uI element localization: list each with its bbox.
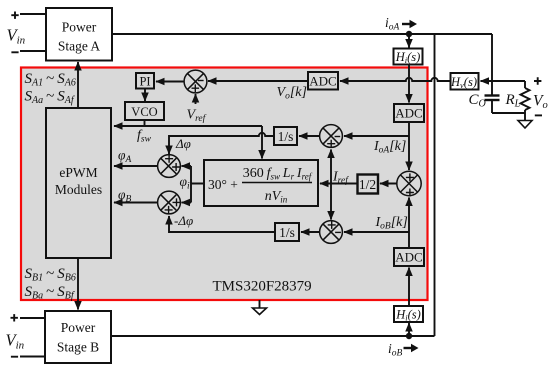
sign plus IoA circle bbox=[327, 140, 335, 148]
arrow phi-i to bottom circle bbox=[182, 202, 192, 204]
block ADC right bbox=[394, 104, 424, 122]
node ioA dot bbox=[406, 31, 412, 37]
wire PI to VCO bbox=[144, 88, 146, 101]
sign plus IoB circle top bbox=[328, 221, 336, 229]
summing junction phiB bbox=[158, 191, 181, 214]
svg-text:ADC: ADC bbox=[309, 74, 336, 89]
ground symbol load bbox=[518, 121, 532, 129]
wire Hi(s) to ADC right bbox=[408, 64, 410, 103]
wire VCO stem bbox=[144, 120, 146, 126]
sign minus IoA circle bbox=[335, 136, 341, 138]
wire big circle to 1/2 box bbox=[380, 183, 397, 185]
wire Power Stage A output top rail bbox=[112, 33, 492, 35]
svg-text:1/s: 1/s bbox=[279, 225, 295, 240]
svg-text:Vin: Vin bbox=[7, 26, 26, 47]
ground stem DSP bbox=[259, 300, 261, 308]
svg-text:ADC: ADC bbox=[395, 106, 422, 121]
wire bottom ADC up to big circle bottom bbox=[408, 198, 410, 249]
arrow phi-i to top circle bbox=[182, 165, 192, 167]
svg-text:Hv(s): Hv(s) bbox=[450, 75, 477, 90]
svg-text:VCO: VCO bbox=[131, 105, 157, 119]
svg-text:Δφ: Δφ bbox=[175, 136, 191, 151]
wire top-left circle to 1/s bbox=[299, 135, 320, 137]
DSP gray box TMS320F28379 (red border) bbox=[21, 68, 428, 301]
svg-text:Stage A: Stage A bbox=[58, 39, 101, 54]
block Hi(s) bottom bbox=[394, 306, 423, 322]
wire load rail to Hv(s) input bbox=[481, 80, 526, 82]
svg-text:RL: RL bbox=[505, 92, 521, 110]
sign plus phiB bottom bbox=[165, 206, 173, 214]
wire bottom-left circle to bottom 1/s bbox=[301, 231, 320, 233]
block 1/s bottom bbox=[275, 223, 299, 241]
wire PI circle output to PI box bbox=[156, 81, 185, 83]
summing junction IoA error bbox=[320, 125, 343, 148]
wire RL top lead bbox=[524, 81, 526, 88]
fraction bar formula bbox=[242, 182, 312, 184]
block ADC top-left bbox=[308, 72, 338, 90]
svg-text:ioB: ioB bbox=[388, 341, 403, 359]
svg-text:Vin: Vin bbox=[6, 331, 25, 352]
wire Vin- to Power Stage B bbox=[20, 356, 45, 358]
wire Power Stage B output bottom rail bbox=[111, 335, 435, 337]
svg-text:ADC: ADC bbox=[395, 250, 422, 265]
wire ADC down to big circle top bbox=[408, 122, 410, 170]
block formula 30deg bbox=[204, 160, 318, 206]
wire RL bottom lead bbox=[524, 110, 526, 113]
block Power Stage A bbox=[46, 8, 112, 61]
wire Vin+ to Power Stage A bbox=[20, 13, 46, 15]
svg-text:Power: Power bbox=[61, 320, 96, 335]
sign plus phiA right bbox=[172, 163, 180, 171]
svg-text:30° +: 30° + bbox=[208, 177, 238, 192]
summing junction IoA+IoB bbox=[397, 171, 421, 195]
svg-text:1/2: 1/2 bbox=[359, 177, 376, 192]
sign minus IoB circle right bbox=[335, 231, 341, 233]
wire Vref arrow bbox=[195, 94, 197, 104]
svg-text:Vo: Vo bbox=[533, 93, 548, 112]
label Vin top minus bbox=[11, 51, 18, 53]
wire Iref line from 1/2 to formula box bbox=[320, 183, 357, 185]
wire phiA circle to ePWM bbox=[114, 165, 158, 167]
wire ADC output to PI summing circle bbox=[208, 80, 308, 82]
label Vin bottom plus bbox=[11, 314, 18, 321]
svg-text:Hi(s): Hi(s) bbox=[395, 50, 421, 65]
sign plus big circle top bbox=[406, 173, 414, 181]
svg-text:TMS320F28379: TMS320F28379 bbox=[213, 279, 312, 295]
svg-text:CO: CO bbox=[469, 92, 486, 110]
wire phiB circle to ePWM bbox=[114, 202, 158, 204]
wire output node down to capacitor top bbox=[491, 34, 493, 96]
wire ePWM up to Power Stage A bbox=[77, 62, 79, 108]
svg-text:Stage B: Stage B bbox=[57, 340, 99, 355]
wire bottom node to Hi(s) bbox=[408, 323, 410, 336]
wire Vin+ to Power Stage B bbox=[20, 317, 45, 319]
label Vo minus bbox=[535, 114, 542, 116]
wire Iref vertical up to top circle bbox=[330, 150, 332, 184]
svg-text:IoB[k]: IoB[k] bbox=[375, 215, 408, 232]
block Hv(s) bbox=[451, 73, 479, 90]
summing junction phiA bbox=[158, 155, 181, 178]
block VCO bbox=[125, 102, 164, 120]
label Vin top plus bbox=[11, 12, 18, 19]
block 1/s top bbox=[274, 127, 297, 145]
wire IoB branch to bottom-left circle bbox=[344, 231, 409, 233]
label Vo plus bbox=[534, 77, 541, 84]
wire -delta-phi from bottom 1/s to phiB circle bbox=[169, 216, 275, 232]
wire ground stem load bbox=[524, 113, 526, 121]
block ADC bottom bbox=[394, 248, 424, 266]
svg-text:Hi(s): Hi(s) bbox=[395, 308, 421, 323]
svg-text:ePWM: ePWM bbox=[59, 165, 97, 180]
svg-text:-Δφ: -Δφ bbox=[174, 213, 193, 228]
sign plus phiB right bbox=[173, 198, 181, 206]
svg-text:Power: Power bbox=[62, 20, 97, 35]
wire Vin- to Power Stage A bbox=[20, 50, 46, 52]
svg-text:1/s: 1/s bbox=[278, 129, 294, 144]
wire Hv(s) output with hops to ADC top-left bbox=[340, 78, 451, 81]
svg-text:IoA[k]: IoA[k] bbox=[373, 139, 406, 156]
sign plus phiA top bbox=[165, 155, 173, 163]
sign minus PI circle bbox=[198, 80, 204, 82]
wire Iref vertical down to bottom circle bbox=[330, 184, 332, 220]
summing junction PI (Vo error) bbox=[184, 70, 207, 93]
sign plus PI circle bbox=[192, 84, 200, 92]
svg-text:ioA: ioA bbox=[385, 15, 400, 33]
wire IoA branch to top-left circle bbox=[344, 135, 409, 137]
wire capacitor bottom lead bbox=[491, 100, 493, 113]
block Power Stage B bbox=[45, 311, 111, 363]
wire ePWM down to Power Stage B bbox=[77, 258, 79, 310]
wire fsw line to ePWM bbox=[114, 125, 262, 127]
wire load bottom rail bbox=[492, 112, 525, 114]
wire 1/s output delta-phi with hop bbox=[169, 133, 274, 154]
block PI bbox=[136, 73, 154, 89]
ground symbol DSP bbox=[253, 308, 267, 315]
svg-text:Vo[k]: Vo[k] bbox=[277, 85, 307, 102]
sign plus big circle bottom bbox=[406, 189, 414, 197]
block 1/2 bbox=[358, 175, 379, 194]
arrow ioB direction bbox=[404, 344, 419, 352]
block Hi(s) top bbox=[394, 49, 423, 65]
wire formula output phi-i split bbox=[191, 166, 204, 203]
svg-text:Modules: Modules bbox=[55, 182, 102, 197]
wire fsw drop to formula box bbox=[261, 126, 263, 159]
arrow ioA direction bbox=[402, 20, 417, 28]
label Vin bottom minus bbox=[11, 356, 18, 358]
wire bottom ADC from Hi(s) bbox=[408, 268, 410, 308]
summing junction IoB error bbox=[320, 221, 343, 244]
wire node to Hi(s) top bbox=[408, 34, 410, 48]
wire right return vertical x=434.5 bbox=[434, 34, 436, 336]
block ePWM Modules bbox=[46, 108, 111, 258]
resistor RL zigzag bbox=[521, 88, 530, 110]
svg-text:PI: PI bbox=[139, 75, 150, 89]
node ioB dot bbox=[406, 333, 412, 339]
capacitor CO plates bbox=[485, 96, 500, 101]
